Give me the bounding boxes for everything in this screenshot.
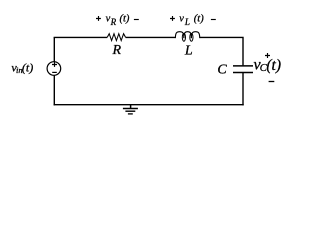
- svg-text:C: C: [217, 62, 227, 77]
- label + vC(t) -: [254, 53, 282, 82]
- resistor R: [107, 34, 125, 41]
- wire right segment: [242, 73, 244, 105]
- label L: [184, 44, 193, 59]
- ground: [123, 105, 138, 114]
- capacitor C: [233, 66, 253, 73]
- wire left-top segment: [53, 37, 55, 61]
- svg-text:L: L: [184, 17, 190, 27]
- wire bottom segment: [54, 104, 244, 106]
- svg-text:(t): (t): [266, 57, 281, 74]
- svg-text:(t): (t): [22, 61, 33, 75]
- svg-text:(t): (t): [120, 13, 130, 24]
- inductor L: [175, 32, 199, 41]
- label C: [217, 62, 227, 77]
- wire top-middle segment: [126, 36, 176, 38]
- svg-text:L: L: [184, 44, 193, 59]
- wire left-bottom segment: [53, 75, 55, 105]
- voltage source vin: [47, 62, 61, 76]
- svg-text:R: R: [112, 43, 122, 58]
- svg-text:v: v: [179, 13, 184, 24]
- label + vL(t) -: [170, 13, 216, 26]
- svg-text:R: R: [110, 17, 117, 27]
- svg-text:(t): (t): [194, 13, 204, 24]
- wire top-left segment: [54, 36, 108, 38]
- label vin(t): [11, 61, 33, 76]
- wire top-right segment: [200, 37, 243, 65]
- label R: [112, 43, 122, 58]
- label + vR(t) -: [96, 13, 139, 27]
